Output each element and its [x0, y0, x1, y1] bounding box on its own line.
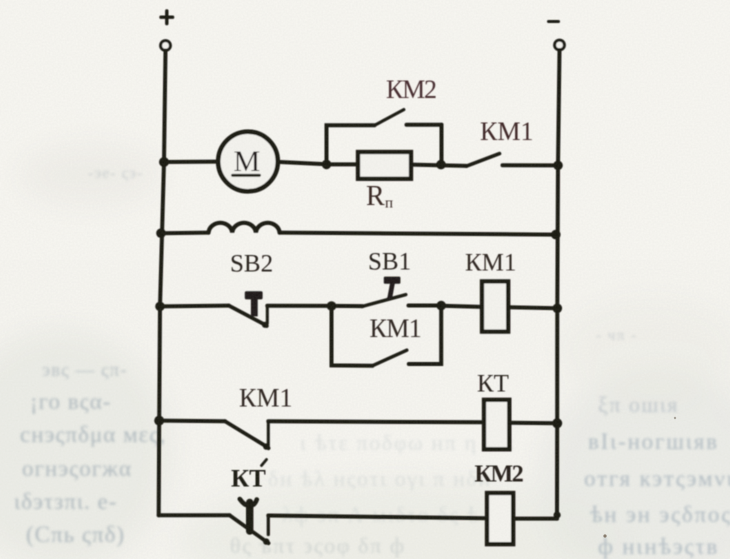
node right rail rung1 — [553, 161, 563, 171]
wire rail to KM1 NC contact — [159, 419, 225, 424]
label SB1 — [368, 249, 411, 276]
wire rail to KT contact — [159, 513, 230, 517]
wire rail to inductor — [161, 231, 209, 236]
button SB2 plunger — [245, 291, 263, 316]
bypass branch right vertical — [440, 125, 444, 164]
bleed-through text left margin — [14, 165, 166, 547]
wire node A to resistor — [327, 162, 359, 166]
bypass branch left vertical + top wire — [327, 125, 375, 163]
node rung2 right — [551, 230, 561, 240]
label KM1 coil — [465, 250, 516, 277]
node rung3 left — [155, 302, 165, 312]
contact KM1 parallel blade — [372, 350, 407, 366]
wire coil KT to right rail — [509, 421, 557, 425]
label SB2 — [230, 251, 273, 278]
button SB2 blade — [229, 306, 267, 326]
node rung1 left — [159, 157, 169, 167]
contact KM1 NC right terminal — [267, 421, 270, 447]
node rung3 right — [553, 304, 563, 314]
node rung4 right — [552, 418, 562, 428]
wire rail to SB2 — [160, 304, 229, 309]
right terminal circle — [555, 40, 565, 50]
button SB1 fixed wire to node D — [409, 304, 442, 308]
contact KT delay actuator stem — [246, 503, 253, 532]
plus terminal label — [161, 11, 173, 24]
wire KT contact to coil KM2 — [268, 516, 487, 519]
minus terminal label — [549, 20, 559, 23]
wire node C to SB1 — [332, 304, 363, 308]
left terminal circle — [161, 41, 171, 51]
wire resistor to KM1 contact — [411, 165, 466, 166]
right supply rail — [557, 50, 560, 519]
coil KT — [484, 400, 509, 450]
resistor Rп — [358, 152, 411, 179]
bleed-through text lines across bottom — [230, 430, 515, 558]
left supply rail — [159, 51, 166, 516]
node C junction — [327, 301, 337, 311]
wire motor to node A — [278, 162, 327, 164]
contact KT right terminal — [267, 516, 270, 535]
contact KM1 NC arc tick — [262, 460, 267, 466]
contact KM1 NC blade — [225, 421, 269, 448]
wire rail to motor — [164, 160, 219, 164]
wire node D to coil KM1 — [441, 306, 482, 307]
node D junction — [436, 301, 446, 311]
label KM1 parallel — [370, 314, 422, 343]
contact KT delay blade — [230, 515, 269, 543]
label KM1 rung1 — [480, 117, 533, 146]
contact KM1 parallel fixed wire — [409, 306, 441, 364]
node B junction — [436, 160, 446, 170]
label KM1 rung4 — [239, 384, 292, 413]
label KT coil — [477, 371, 509, 398]
paper mottling — [0, 145, 730, 559]
node rung4 left — [154, 416, 164, 426]
node A junction — [322, 160, 332, 170]
wire inductor to right rail — [280, 233, 556, 235]
parallel branch left vertical — [332, 306, 373, 366]
node rung5 right — [554, 511, 561, 518]
ink speck — [603, 534, 606, 537]
inductor winding — [209, 223, 280, 233]
motor M1 — [218, 132, 278, 192]
label KT rung5 — [231, 466, 266, 493]
wire SB2 to node C — [267, 304, 331, 308]
wire KM1 NC to coil KT — [268, 421, 484, 422]
button SB1 blade — [362, 295, 406, 307]
contact KM2 fixed wire — [407, 123, 442, 127]
button SB2 right terminal — [266, 306, 269, 324]
wire coil KM1 to right rail — [508, 305, 557, 310]
coil KM2 — [487, 493, 513, 544]
contact KM1 (rung 1) blade — [466, 154, 499, 167]
contact KM2 blade — [375, 110, 404, 126]
paper grain — [0, 0, 1, 1]
contact KT delay actuator horns — [240, 499, 257, 505]
wire coil KM2 to right rail — [513, 517, 557, 521]
label KM2 top — [386, 75, 436, 104]
coil KM1 — [482, 281, 508, 331]
contact KM1 (rung 1) fixed wire — [503, 163, 559, 167]
node rung2 left — [156, 228, 166, 238]
bleed-through text right block — [584, 429, 730, 559]
label KM2 coil — [475, 462, 523, 488]
bleed-through text right margin — [596, 328, 679, 417]
button SB1 plunger — [384, 277, 401, 300]
